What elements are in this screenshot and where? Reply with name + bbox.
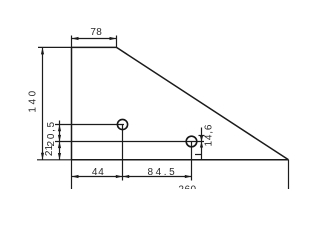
arrow 14,6 lower <box>200 142 203 148</box>
wire plate top edge <box>72 46 117 48</box>
wire plate bottom edge <box>72 159 289 161</box>
svg-text:21: 21 <box>44 145 55 157</box>
wire 78 right extension line <box>116 36 118 48</box>
wire bottom-left extension line <box>37 159 72 161</box>
svg-text:84.5: 84.5 <box>147 167 177 178</box>
wire hole2 center horizontal extension <box>55 141 204 143</box>
svg-text:260: 260 <box>178 185 196 189</box>
arrow 84.5 left <box>123 175 130 178</box>
arrow 78 left <box>72 37 79 40</box>
arrow 20,5 bottom <box>58 135 61 142</box>
svg-text:44: 44 <box>92 167 105 178</box>
wire tick lower of 14,6 <box>195 154 202 156</box>
svg-text:20,5: 20,5 <box>46 120 57 146</box>
svg-text:14,6: 14,6 <box>204 124 215 147</box>
wire tick upper of 14,6 <box>199 135 205 137</box>
wire dimension line 20,5 and 21 <box>59 121 61 161</box>
arrow 44 right <box>116 175 123 178</box>
wire 140 top extension line <box>38 46 72 48</box>
arrow 14,6 upper <box>200 136 203 142</box>
arrow 21 bottom <box>58 153 61 160</box>
arrow 78 right <box>110 37 117 40</box>
wire hole1 center vertical extension <box>122 124 124 180</box>
wire bottom chain dimension line 44 / 84.5 <box>72 176 192 178</box>
wire 78 left extension and 260 left extension <box>71 36 73 48</box>
arrow 20,5 top <box>58 125 61 132</box>
arrow 44 left <box>72 175 79 178</box>
arrow 140 bottom <box>41 153 44 160</box>
wire plate left edge <box>71 47 73 159</box>
wire hole1 center horizontal extension <box>55 124 124 126</box>
wire dimension line 140 <box>42 47 44 159</box>
wire dimension line 78 <box>72 38 117 40</box>
svg-text:140: 140 <box>28 88 39 113</box>
arrow 84.5 right <box>185 175 192 178</box>
hole C2 <box>186 136 197 147</box>
wire dimension line 14,6 <box>201 128 203 160</box>
wire plate slanted edge <box>117 47 289 159</box>
hole C1 <box>117 119 127 129</box>
wire hole2 center vertical extension <box>191 141 193 181</box>
svg-text:78: 78 <box>90 27 102 38</box>
arrow 140 top <box>41 47 44 54</box>
wire 260 right extension line <box>288 160 290 189</box>
arrow 21 top <box>58 142 61 149</box>
